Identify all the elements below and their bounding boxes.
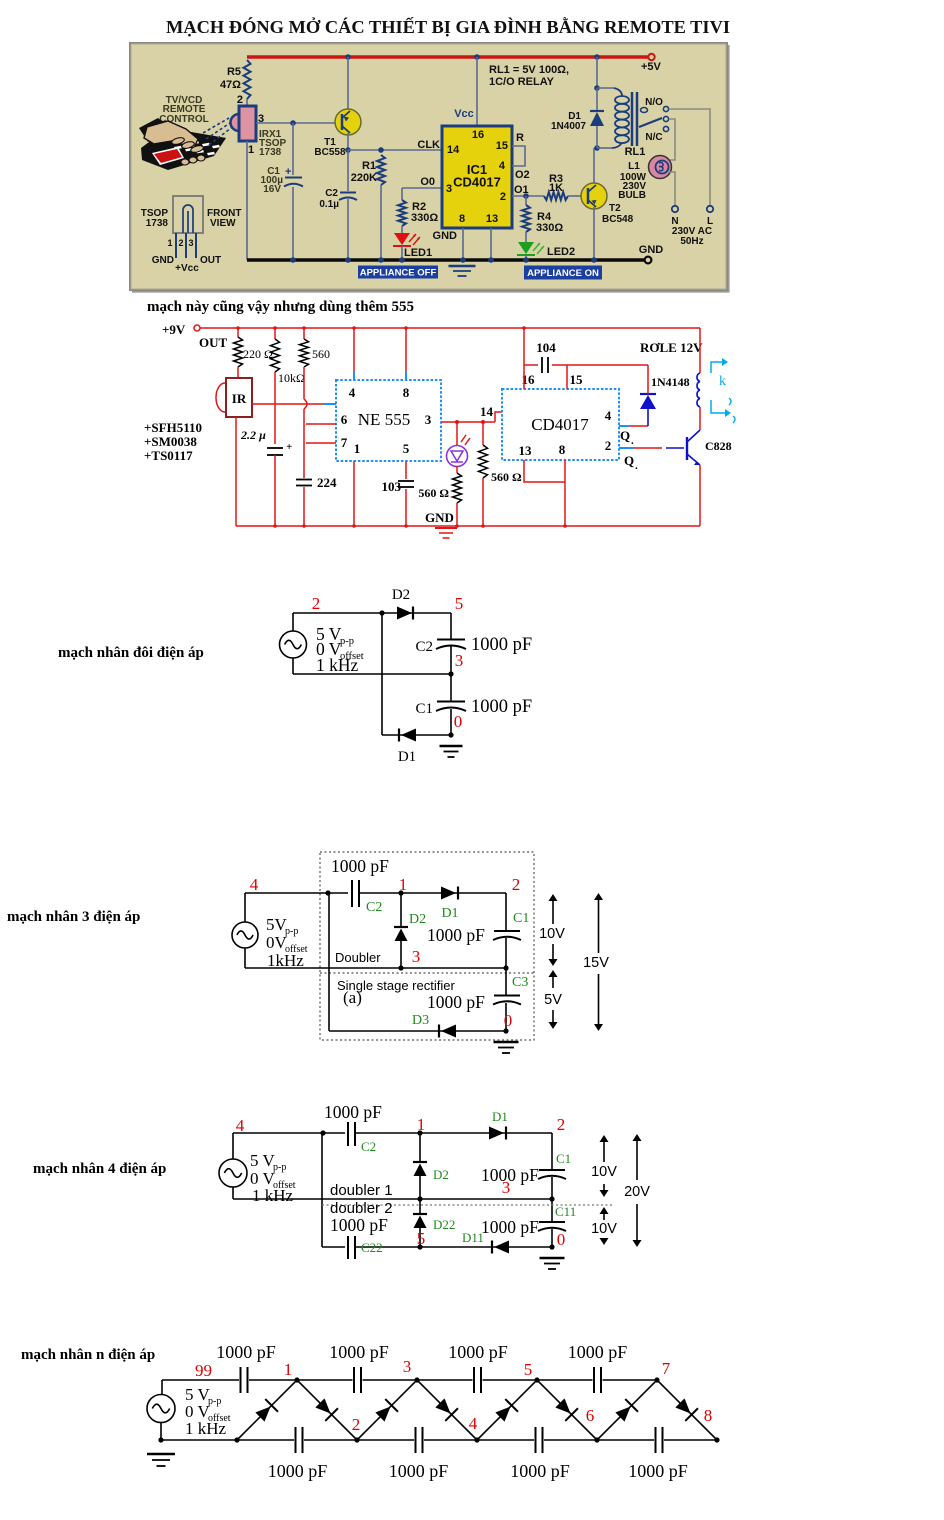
svg-text:560 Ω: 560 Ω xyxy=(491,470,522,484)
svg-text:4: 4 xyxy=(605,408,612,423)
svg-text:R: R xyxy=(516,132,524,144)
svg-text:mạch nhân 4 điện áp: mạch nhân 4 điện áp xyxy=(33,1161,166,1177)
svg-text:220K: 220K xyxy=(351,172,377,184)
svg-text:mạch nhân đôi điện áp: mạch nhân đôi điện áp xyxy=(58,645,204,661)
svg-text:10V: 10V xyxy=(539,926,565,942)
svg-text:mạch này cũng vậy nhưng dùng t: mạch này cũng vậy nhưng dùng thêm 555 xyxy=(147,299,414,315)
svg-text:0: 0 xyxy=(504,1011,513,1030)
svg-text:1: 1 xyxy=(354,441,361,456)
svg-text:1000 pF: 1000 pF xyxy=(628,1461,688,1481)
svg-text:OUT: OUT xyxy=(199,335,228,350)
svg-text:+TS0117: +TS0117 xyxy=(144,448,193,463)
svg-text:1000 pF: 1000 pF xyxy=(268,1461,328,1481)
svg-text:IR: IR xyxy=(232,391,247,406)
svg-text:D1: D1 xyxy=(492,1109,508,1124)
svg-text:1000 pF: 1000 pF xyxy=(329,1342,389,1362)
svg-text:0.1µ: 0.1µ xyxy=(319,199,339,210)
svg-text:560: 560 xyxy=(312,347,330,361)
svg-text:20V: 20V xyxy=(624,1184,650,1200)
svg-text:10kΩ: 10kΩ xyxy=(278,371,305,385)
svg-text:+5V: +5V xyxy=(641,61,662,73)
svg-text:1 kHz: 1 kHz xyxy=(185,1419,227,1438)
svg-text:99: 99 xyxy=(195,1361,212,1380)
svg-text:0: 0 xyxy=(557,1230,566,1249)
svg-text:5: 5 xyxy=(403,441,410,456)
svg-text:BC548: BC548 xyxy=(602,214,634,225)
svg-text:3: 3 xyxy=(403,1357,412,1376)
svg-text:2: 2 xyxy=(312,594,321,613)
svg-text:GND: GND xyxy=(425,510,454,525)
svg-text:1C/O RELAY: 1C/O RELAY xyxy=(489,76,555,88)
svg-text:NE 555: NE 555 xyxy=(358,410,410,429)
svg-text:50Hz: 50Hz xyxy=(680,236,703,247)
svg-text:10V: 10V xyxy=(591,1221,617,1237)
svg-text:4: 4 xyxy=(469,1414,478,1433)
svg-text:1 kHz: 1 kHz xyxy=(316,655,359,675)
svg-text:3: 3 xyxy=(502,1178,511,1197)
svg-text:104: 104 xyxy=(536,340,556,355)
svg-text:N/O: N/O xyxy=(645,97,663,108)
svg-text:6: 6 xyxy=(341,412,348,427)
svg-text:6: 6 xyxy=(586,1406,595,1425)
svg-text:O0: O0 xyxy=(420,176,435,188)
svg-text:D1: D1 xyxy=(398,749,416,765)
svg-text:GND: GND xyxy=(152,255,174,266)
svg-text:CD4017: CD4017 xyxy=(531,415,589,434)
svg-text:R1: R1 xyxy=(362,160,376,172)
svg-text:2: 2 xyxy=(512,875,521,894)
svg-text:k: k xyxy=(719,374,726,389)
svg-text:R5: R5 xyxy=(227,66,241,78)
svg-text:Q: Q xyxy=(624,453,634,468)
svg-text:5V: 5V xyxy=(544,992,562,1008)
svg-text:BULB: BULB xyxy=(618,190,646,201)
svg-text:Vcc: Vcc xyxy=(454,108,474,120)
svg-text:mạch nhân 3 điện áp: mạch nhân 3 điện áp xyxy=(7,909,140,925)
svg-text:C2: C2 xyxy=(415,639,433,655)
svg-text:1000 pF: 1000 pF xyxy=(330,1215,388,1235)
svg-text:1 kHz: 1 kHz xyxy=(252,1186,294,1205)
svg-text:D11: D11 xyxy=(462,1230,484,1245)
svg-text:15V: 15V xyxy=(583,955,609,971)
svg-text:1000 pF: 1000 pF xyxy=(471,635,532,655)
svg-text:3: 3 xyxy=(455,651,464,670)
svg-text:C3: C3 xyxy=(512,975,528,990)
svg-text:1738: 1738 xyxy=(259,147,282,158)
svg-text:1000 pF: 1000 pF xyxy=(471,697,532,717)
svg-text:1: 1 xyxy=(167,238,172,248)
svg-text:+: + xyxy=(286,441,292,453)
svg-text:47Ω: 47Ω xyxy=(220,79,241,91)
svg-text:C828: C828 xyxy=(705,439,732,453)
svg-text:RL1 = 5V 100Ω,: RL1 = 5V 100Ω, xyxy=(489,64,569,76)
svg-text:D2: D2 xyxy=(433,1167,449,1182)
svg-text:LED1: LED1 xyxy=(404,247,432,259)
svg-text:MẠCH ĐÓNG MỞ CÁC THIẾT BỊ GIA: MẠCH ĐÓNG MỞ CÁC THIẾT BỊ GIA ĐÌNH BẰNG … xyxy=(166,16,730,37)
svg-text:1000 pF: 1000 pF xyxy=(389,1461,449,1481)
svg-text:Q: Q xyxy=(620,428,630,443)
svg-text:GND: GND xyxy=(433,230,458,242)
svg-text:p-p: p-p xyxy=(208,1396,221,1407)
svg-text:+SFH5110: +SFH5110 xyxy=(144,420,202,435)
svg-text:1K: 1K xyxy=(549,182,563,194)
svg-text:2: 2 xyxy=(237,94,243,106)
svg-text:3: 3 xyxy=(412,947,421,966)
svg-text:VIEW: VIEW xyxy=(210,218,236,229)
svg-text:10V: 10V xyxy=(591,1164,617,1180)
svg-text:1N4007: 1N4007 xyxy=(551,121,586,132)
svg-text:8: 8 xyxy=(403,385,410,400)
svg-text:16V: 16V xyxy=(263,184,281,195)
svg-text:GND: GND xyxy=(639,244,664,256)
svg-text:220 Ω: 220 Ω xyxy=(243,347,273,361)
svg-text:1: 1 xyxy=(399,875,408,894)
svg-text:8: 8 xyxy=(559,442,566,457)
svg-text:D3: D3 xyxy=(412,1013,429,1028)
svg-text:5 V: 5 V xyxy=(250,1151,275,1170)
svg-text:1000 pF: 1000 pF xyxy=(324,1102,382,1122)
svg-text:14: 14 xyxy=(447,144,460,156)
svg-text:CD4017: CD4017 xyxy=(453,175,501,190)
svg-text:15: 15 xyxy=(570,372,584,387)
svg-text:0: 0 xyxy=(454,712,463,731)
svg-text:1: 1 xyxy=(417,1115,426,1134)
svg-text:.: . xyxy=(631,435,634,447)
svg-text:5: 5 xyxy=(524,1360,533,1379)
svg-text:3: 3 xyxy=(188,238,193,248)
svg-text:C2: C2 xyxy=(366,900,382,915)
svg-text:C1: C1 xyxy=(513,911,529,926)
svg-text:7: 7 xyxy=(662,1359,671,1378)
svg-text:Doubler: Doubler xyxy=(335,950,381,965)
svg-text:14: 14 xyxy=(480,404,494,419)
svg-text:D2: D2 xyxy=(392,587,410,603)
svg-text:D22: D22 xyxy=(433,1217,455,1232)
svg-text:2: 2 xyxy=(605,438,612,453)
svg-text:+Vcc: +Vcc xyxy=(175,263,199,274)
svg-text:13: 13 xyxy=(486,213,498,225)
svg-text:+9V: +9V xyxy=(162,322,186,337)
svg-text:T2: T2 xyxy=(609,203,621,214)
svg-text:3: 3 xyxy=(425,412,432,427)
svg-text:p-p: p-p xyxy=(340,636,354,647)
svg-text:224: 224 xyxy=(317,475,337,490)
svg-text:15: 15 xyxy=(496,140,508,152)
svg-text:1000 pF: 1000 pF xyxy=(481,1217,539,1237)
svg-text:.: . xyxy=(635,460,638,472)
svg-text:1000 pF: 1000 pF xyxy=(427,992,485,1012)
svg-text:1000 pF: 1000 pF xyxy=(216,1342,276,1362)
svg-text:LED2: LED2 xyxy=(547,246,575,258)
svg-text:2: 2 xyxy=(557,1115,566,1134)
svg-text:103: 103 xyxy=(382,479,402,494)
svg-text:BC558: BC558 xyxy=(314,147,346,158)
svg-text:2: 2 xyxy=(178,238,183,248)
svg-text:APPLIANCE ON: APPLIANCE ON xyxy=(527,268,599,279)
svg-text:doubler 1: doubler 1 xyxy=(330,1182,393,1199)
svg-text:3: 3 xyxy=(446,183,452,195)
svg-text:330Ω: 330Ω xyxy=(536,222,563,234)
svg-text:560 Ω: 560 Ω xyxy=(418,486,449,500)
svg-text:D2: D2 xyxy=(409,912,426,927)
svg-text:5: 5 xyxy=(417,1229,426,1248)
svg-text:2.2 µ: 2.2 µ xyxy=(240,428,266,442)
svg-text:CLK: CLK xyxy=(417,139,440,151)
svg-text:C2: C2 xyxy=(325,188,338,199)
svg-text:1000 pF: 1000 pF xyxy=(568,1342,628,1362)
svg-text:1N4148: 1N4148 xyxy=(651,375,690,389)
svg-text:4: 4 xyxy=(499,160,506,172)
svg-text:7: 7 xyxy=(341,435,348,450)
svg-text:4: 4 xyxy=(250,875,259,894)
svg-text:330Ω: 330Ω xyxy=(411,212,438,224)
svg-text:2: 2 xyxy=(500,191,506,203)
svg-text:N/C: N/C xyxy=(645,132,662,143)
svg-text:RƠLE 12V: RƠLE 12V xyxy=(640,340,703,355)
svg-text:+SM0038: +SM0038 xyxy=(144,434,197,449)
svg-text:4: 4 xyxy=(236,1116,245,1135)
svg-text:C11: C11 xyxy=(555,1204,576,1219)
svg-text:C22: C22 xyxy=(361,1240,383,1255)
svg-text:1000 pF: 1000 pF xyxy=(427,925,485,945)
svg-text:OUT: OUT xyxy=(200,255,221,266)
svg-text:APPLIANCE OFF: APPLIANCE OFF xyxy=(360,268,437,279)
svg-text:O2: O2 xyxy=(515,169,530,181)
svg-text:16: 16 xyxy=(472,129,484,141)
svg-text:L1: L1 xyxy=(628,161,640,172)
svg-text:(a): (a) xyxy=(343,988,362,1007)
svg-text:2: 2 xyxy=(352,1415,361,1434)
svg-text:1kHz: 1kHz xyxy=(267,951,304,970)
svg-text:1: 1 xyxy=(284,1360,293,1379)
svg-text:5: 5 xyxy=(455,594,464,613)
svg-text:C1: C1 xyxy=(556,1151,571,1166)
svg-text:1738: 1738 xyxy=(146,218,169,229)
svg-text:p-p: p-p xyxy=(273,1162,286,1173)
svg-text:D1: D1 xyxy=(441,906,458,921)
svg-text:1: 1 xyxy=(248,144,254,156)
svg-text:C1: C1 xyxy=(415,701,433,717)
svg-text:p-p: p-p xyxy=(285,926,298,937)
svg-text:8: 8 xyxy=(704,1406,713,1425)
svg-text:13: 13 xyxy=(519,443,533,458)
svg-text:C2: C2 xyxy=(361,1139,376,1154)
svg-text:RL1: RL1 xyxy=(625,146,646,158)
svg-text:1000 pF: 1000 pF xyxy=(331,856,389,876)
svg-text:1000 pF: 1000 pF xyxy=(510,1461,570,1481)
svg-text:8: 8 xyxy=(459,213,465,225)
svg-text:mạch nhân n điện áp: mạch nhân n điện áp xyxy=(21,1347,155,1363)
svg-text:4: 4 xyxy=(349,385,356,400)
svg-text:1000 pF: 1000 pF xyxy=(448,1342,508,1362)
